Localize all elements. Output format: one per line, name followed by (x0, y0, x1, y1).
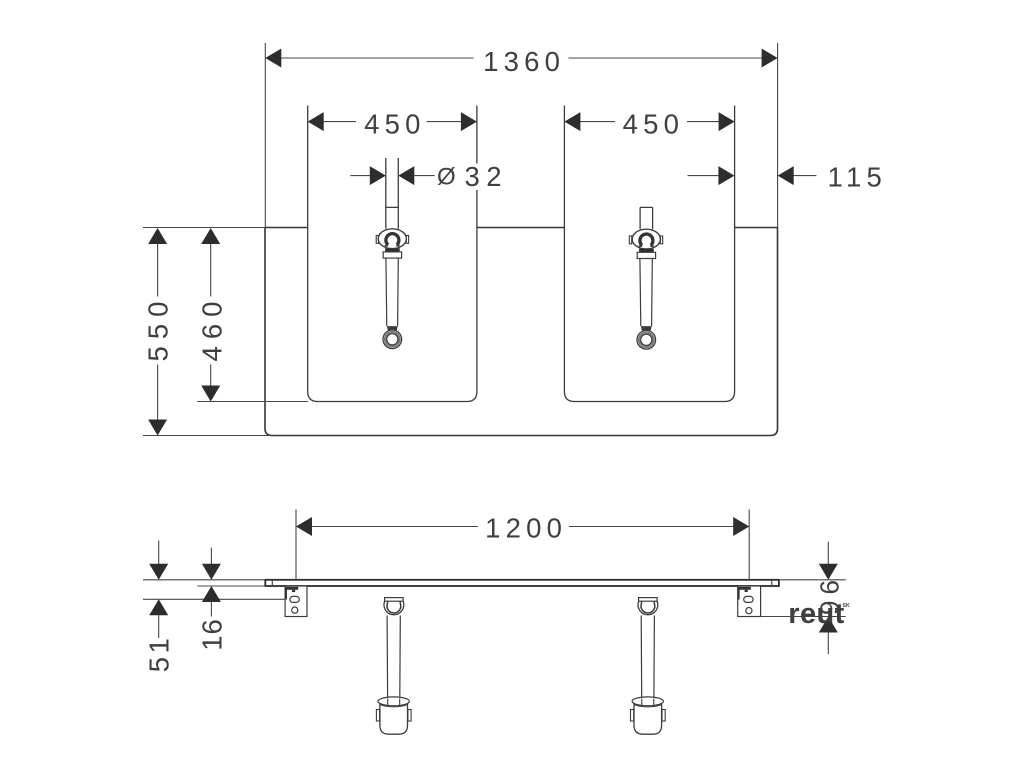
svg-text:115: 115 (828, 161, 887, 192)
drain 1 horseshoe (386, 234, 399, 245)
svg-text:550: 550 (143, 295, 174, 362)
basin cutout 1 (308, 106, 477, 402)
svg-text:32: 32 (465, 161, 509, 192)
svg-text:1360: 1360 (483, 46, 565, 77)
dim 96 arrows (819, 564, 838, 580)
trap 1 flange (385, 598, 404, 602)
trap 2 ring (638, 601, 658, 614)
board joint lines (272, 580, 772, 586)
bracket right (738, 586, 761, 617)
extension lines left side top view (143, 228, 308, 436)
dim 550 line (157, 244, 159, 420)
extension lines lower left (143, 580, 285, 600)
drain 1 tailpipe (386, 258, 398, 326)
svg-text:reut: reut (788, 598, 844, 630)
dim 450 right line (564, 121, 734, 123)
svg-text:1200: 1200 (485, 513, 567, 544)
dim diameter 32 arrows (370, 166, 386, 185)
drain 1 seal band (385, 248, 400, 252)
trap 2 cup body (634, 703, 662, 735)
dim 460 arrows (201, 228, 220, 244)
drain 1 ear left (376, 236, 378, 244)
dim 51 arrows (149, 564, 168, 580)
bracket left clamp marks (286, 587, 299, 590)
dim 115 arrows (718, 166, 734, 185)
basin cutout 2 (564, 106, 734, 402)
drain 1 ball body (378, 229, 406, 249)
dim 1360 line (265, 57, 777, 59)
dim 51 line (158, 541, 160, 639)
drain 2 seal band (639, 249, 654, 253)
dim 96 line (827, 542, 829, 654)
trap 1 pipe (387, 616, 400, 699)
svg-text:460: 460 (196, 295, 227, 362)
drain 2 bottom ring (637, 331, 656, 350)
trap 2 cup rim (632, 697, 663, 706)
dim 450 left line (308, 121, 477, 123)
drain 1 bottom ring (383, 330, 402, 349)
trap 2 cup tabs (631, 710, 634, 722)
svg-text:450: 450 (623, 108, 684, 139)
svg-text:SK: SK (843, 603, 850, 609)
drain 1 ear right (406, 236, 408, 244)
trap 1 cup inner pipe (388, 699, 400, 706)
trap 1 ring (384, 601, 404, 614)
bracket right edge mark (738, 588, 740, 600)
extension lines 1200 (296, 510, 749, 580)
extension lines 1360 (265, 43, 777, 228)
dim 16 arrows (202, 564, 221, 580)
dim 1200 arrows (296, 517, 312, 536)
drain 2 tail cap (641, 326, 652, 331)
drain 2 nut (637, 252, 655, 258)
drain 2 ear right (660, 236, 662, 244)
drain 2 ear left (629, 236, 631, 244)
bracket right round hole (746, 608, 752, 614)
dim 115 lines (688, 175, 817, 177)
dim 450 right arrows (564, 112, 580, 131)
dim 550 arrows (148, 228, 167, 244)
svg-text:Ø: Ø (437, 164, 456, 191)
bracket left round hole (292, 607, 298, 613)
trap 2 pipe (641, 616, 654, 699)
trap 2 cup inner pipe (642, 699, 654, 706)
dim 1360 arrow left (265, 49, 281, 68)
bracket right clamp marks (738, 587, 751, 590)
bracket right slot hole (744, 596, 753, 602)
svg-text:16: 16 (196, 618, 227, 651)
drain 1 pipe (top view) (386, 158, 399, 229)
drain 2 ball body (632, 229, 660, 249)
bracket left edge mark (285, 588, 287, 600)
trap 1 cup tabs (376, 710, 379, 722)
drain 2 horseshoe (640, 234, 653, 245)
dim 16 line (210, 548, 212, 617)
drain 2 pipe (top view) (640, 207, 653, 229)
extension lines right side (761, 580, 846, 617)
bracket left slot hole (290, 596, 299, 602)
bracket left (285, 586, 307, 617)
dim diameter 32 lines (350, 175, 434, 177)
dim 450 left arrows (308, 112, 324, 131)
svg-text:51: 51 (144, 635, 175, 673)
dim 460 line (210, 244, 212, 386)
dim 1360 arrow right (762, 49, 778, 68)
trap 2 flange (639, 598, 658, 602)
svg-text:450: 450 (364, 108, 425, 139)
trap 1 cup rim (378, 697, 409, 706)
drain 1 tail cap (387, 326, 398, 331)
console outline top view (265, 228, 778, 436)
drain 2 tailpipe (640, 259, 652, 327)
trap 1 cup body (380, 703, 408, 735)
board side view (265, 580, 779, 586)
dim 1200 line (296, 526, 749, 528)
drain 1 nut (383, 252, 401, 258)
